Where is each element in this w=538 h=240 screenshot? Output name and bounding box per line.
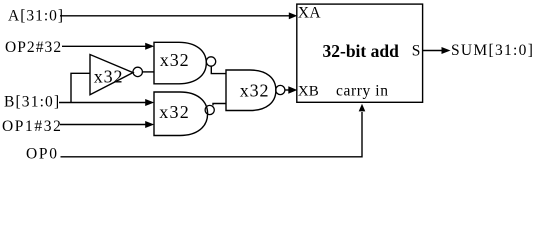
svg-text:OP2#32: OP2#32: [5, 39, 62, 56]
svg-text:S: S: [412, 43, 421, 60]
svg-text:A[31:0]: A[31:0]: [8, 8, 64, 25]
wire OP1 to bottom NAND input: [60, 124, 146, 126]
arrowhead OP1 into bottom NAND: [145, 121, 154, 128]
middle NAND output bubble: [276, 85, 285, 94]
svg-text:SUM[31:0]: SUM[31:0]: [451, 42, 534, 59]
wire branch from B up to inverter input: [71, 73, 90, 102]
arrowhead A into XA: [289, 12, 298, 19]
arrowhead B into bottom NAND: [145, 99, 154, 106]
svg-text:x32: x32: [160, 50, 190, 70]
svg-text:x32: x32: [94, 66, 124, 86]
svg-text:B[31:0]: B[31:0]: [4, 94, 60, 111]
svg-text:OP1#32: OP1#32: [2, 118, 62, 135]
inverter output bubble: [133, 67, 142, 76]
wire OP0 to carry in: [61, 112, 363, 157]
top NAND output bubble: [206, 57, 215, 66]
svg-text:x32: x32: [159, 102, 190, 122]
svg-text:carry in: carry in: [336, 83, 389, 100]
svg-text:x32: x32: [240, 80, 270, 100]
adder box 32-bit add: [297, 4, 423, 102]
bottom NAND gate x32: [154, 92, 208, 136]
svg-text:OP0: OP0: [26, 145, 59, 162]
wire bottom NAND output to middle NAND: [213, 104, 226, 106]
wire A to adder XA: [60, 15, 290, 17]
top NAND gate x32: [154, 42, 206, 84]
svg-text:XA: XA: [298, 5, 321, 22]
arrowhead OP0 up into carry in: [359, 104, 366, 112]
arrowhead OP2 into top NAND: [145, 43, 154, 50]
bottom NAND output bubble: [205, 105, 214, 114]
svg-text:XB: XB: [298, 84, 319, 100]
svg-text:32-bit add: 32-bit add: [323, 41, 400, 61]
wire middle NAND output to adder XB: [285, 89, 290, 91]
wire OP2 to top NAND input: [62, 45, 146, 47]
inverter x32: [90, 55, 133, 95]
arrowhead S to SUM: [442, 47, 451, 54]
wire B to bottom NAND input: [59, 102, 146, 104]
wire top NAND output to middle NAND: [211, 66, 225, 73]
arrowhead into XB: [288, 86, 297, 93]
wire S output: [423, 50, 443, 52]
middle NAND gate x32: [226, 70, 276, 111]
wire inverter output to top NAND: [142, 71, 153, 73]
